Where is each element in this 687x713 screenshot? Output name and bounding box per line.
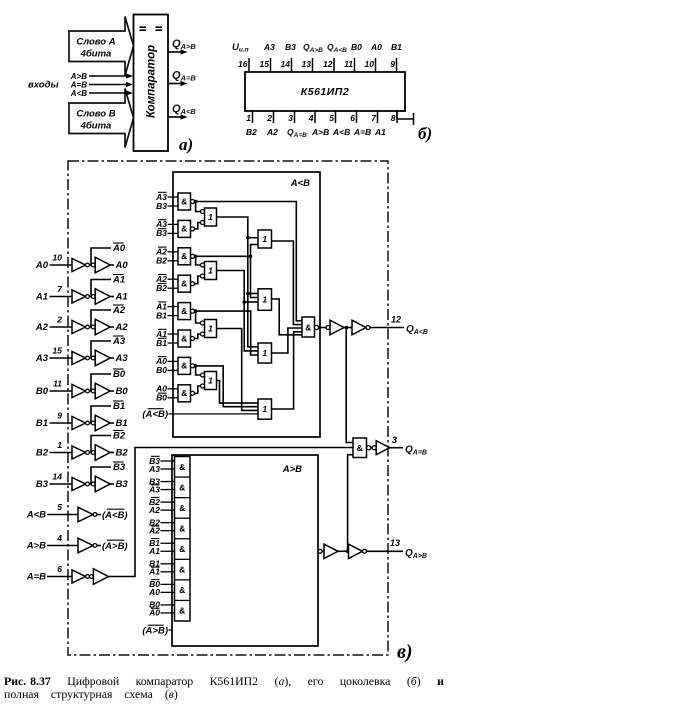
equality marks inside comparator (140, 27, 163, 30)
svg-text:13: 13 (302, 59, 312, 69)
label A1 inverted (112, 275, 125, 286)
svg-text:B2: B2 (116, 448, 129, 459)
input B0 pin 11 wire (36, 379, 72, 398)
svg-text:б): б) (418, 124, 432, 143)
inverter 1 for B0 (72, 385, 89, 398)
pin label B2 (bottom) (246, 127, 257, 137)
pin label QA>B (top) (303, 42, 323, 54)
svg-text:13: 13 (390, 538, 400, 548)
svg-text:полная структурная схема (в): полная структурная схема (в) (4, 687, 178, 701)
svg-text:&: & (179, 523, 185, 533)
node B2 inverted branch (90, 436, 112, 453)
wire NAND D1 out to OR D9 top input (195, 202, 201, 212)
svg-text:A1: A1 (115, 292, 128, 303)
svg-text:2: 2 (56, 315, 62, 325)
svg-text:&: & (179, 462, 185, 472)
input label A2bar of D3 (155, 247, 178, 257)
svg-text:12: 12 (323, 59, 333, 69)
node at NAND D3 output (194, 254, 198, 258)
pin 14 stub (top) (281, 58, 292, 72)
NAND gate D1 (A3bar.B3) (178, 193, 195, 210)
svg-text:B3: B3 (285, 42, 296, 52)
label A>B (block title) (282, 464, 302, 475)
svg-text:A=B: A=B (353, 127, 371, 137)
wire OR D16 out to final AND input 4 (272, 332, 303, 409)
svg-text:B0: B0 (351, 42, 362, 52)
svg-text:&: & (179, 585, 185, 595)
inverter 2 for A3 (91, 350, 114, 366)
svg-text:A3: A3 (115, 353, 129, 364)
svg-text:A0: A0 (35, 260, 49, 271)
input bus arrow Слово А 4бита (69, 17, 134, 76)
pin 16 stub (top) (238, 58, 249, 72)
svg-text:B0: B0 (156, 365, 167, 375)
svg-text:B3: B3 (36, 479, 49, 490)
pin label A=B (bottom) (353, 127, 371, 137)
label B0 buffered (116, 386, 129, 397)
svg-text:1: 1 (208, 212, 213, 222)
node B3 inverted branch (90, 467, 112, 484)
wire OR D11 out to OR D16 (217, 329, 259, 411)
inverted output node of A>B block (318, 549, 322, 553)
label в) (397, 641, 413, 663)
input A0 pin 10 wire (35, 253, 72, 272)
input label B2bar of D4 (156, 283, 178, 293)
wire buffer D20 to D21 with branch node (338, 550, 349, 552)
label A0 buffered (115, 260, 129, 271)
pin 1 stub (bottom) (246, 111, 252, 123)
svg-text:&: & (305, 322, 311, 332)
svg-text:(A<B): (A<B) (102, 510, 128, 521)
svg-text:B0: B0 (116, 386, 129, 397)
svg-text:A<B: A<B (70, 89, 87, 98)
wire NAND D3 out to OR D10 top input (195, 256, 201, 265)
wire NAND D7 out to OR D12 top input (195, 366, 201, 375)
input label A1 of A>B cell 5 (148, 546, 174, 556)
comparator block U1 (part a) (134, 15, 169, 152)
svg-text:Рис. 8.37 Цифровой компаратор: Рис. 8.37 Цифровой компаратор К561ИП2 (а… (4, 674, 444, 688)
wire output QA<B pin 12 (370, 315, 404, 328)
wire output QA=B pin 3 (390, 435, 403, 448)
input label A1bar of D5 (155, 301, 178, 311)
inverter 2 for A2 (91, 319, 114, 335)
svg-text:B1: B1 (113, 401, 125, 412)
input label B1 of A>B cell 6 (149, 559, 174, 569)
label B1 inverted (113, 401, 125, 412)
wire NAND D2 out to OR D9 bottom input (195, 223, 201, 229)
pin label B1 (top) (391, 42, 402, 52)
svg-text:A<B: A<B (332, 127, 350, 137)
svg-text:&: & (179, 482, 185, 492)
svg-text:&: & (181, 224, 187, 234)
svg-text:B1: B1 (156, 338, 167, 348)
input B2 pin 1 wire (36, 440, 72, 459)
svg-text:1: 1 (57, 440, 62, 450)
svg-text:A2: A2 (35, 322, 49, 333)
svg-text:(A<B): (A<B) (142, 409, 168, 420)
svg-text:A2: A2 (148, 505, 160, 515)
svg-text:A2: A2 (148, 525, 160, 535)
svg-text:3: 3 (288, 113, 293, 123)
wire NAND D8 out to OR D12 bottom input (195, 386, 201, 393)
svg-text:1: 1 (208, 376, 213, 386)
svg-text:B1: B1 (391, 42, 402, 52)
svg-text:B2: B2 (36, 448, 49, 459)
svg-text:B3: B3 (156, 201, 167, 211)
input label B0 of D7 (156, 365, 178, 375)
pin 6 stub (bottom) (350, 111, 356, 123)
buffer D21 (inverting output) (349, 544, 367, 559)
svg-text:&: & (181, 333, 187, 343)
input B1 pin 9 wire (36, 411, 72, 430)
svg-text:1: 1 (262, 234, 267, 244)
svg-text:&: & (181, 361, 187, 371)
OR gate D16 (258, 399, 272, 419)
IC body К561ИП2 (part б) (245, 72, 405, 111)
label B3 inverted (113, 462, 126, 473)
svg-text:12: 12 (391, 315, 401, 325)
cascade input A=B (part a) (70, 81, 133, 90)
input label B0bar of A>B cell 7 (149, 579, 174, 589)
wire OR D12 out to OR D16 (217, 381, 259, 404)
input label A3 of A>B cell 1 (148, 464, 174, 474)
label QA<B (406, 324, 428, 336)
svg-text:К561ИП2: К561ИП2 (301, 86, 349, 98)
svg-text:A>B: A>B (311, 127, 329, 137)
input B3 pin 14 wire (36, 472, 72, 491)
pin 4 stub (bottom) (308, 111, 315, 123)
NAND gate D8 (A0.B0bar) (178, 385, 195, 402)
svg-text:(A>B): (A>B) (102, 541, 128, 552)
input bus arrow Слово В 4бита (69, 89, 134, 148)
inverter 1 for A=B (72, 570, 89, 583)
svg-text:A2: A2 (266, 127, 278, 137)
inverter for A>B (78, 538, 101, 553)
pin label B3 (top) (285, 42, 296, 52)
label A2 buffered (115, 322, 129, 333)
pin 2 stub (bottom) (266, 111, 273, 123)
svg-text:3: 3 (392, 435, 397, 445)
pin 13 stub (top) (302, 58, 313, 72)
pin 15 stub (top) (260, 58, 271, 72)
svg-text:A3: A3 (263, 42, 275, 52)
svg-text:B3: B3 (156, 228, 167, 238)
figure caption line 1 (4, 674, 444, 688)
label A3 inverted (112, 336, 126, 347)
pin label A0 (top) (370, 42, 382, 52)
pin 3 stub (bottom) (288, 111, 294, 123)
svg-text:A2: A2 (115, 322, 129, 333)
svg-text:&: & (181, 279, 187, 289)
svg-text:B2: B2 (156, 283, 167, 293)
input label B3bar of A>B cell 1 (149, 456, 174, 466)
svg-text:B0: B0 (156, 393, 167, 403)
wire output QA>B pin 13 (367, 538, 404, 551)
node at NAND D5 output (194, 309, 198, 313)
OR gate D13 (258, 230, 272, 248)
pin 11 stub (top) (344, 58, 354, 72)
wire branch from QA>B node up to equality gate D22 (346, 455, 353, 553)
svg-text:A0: A0 (112, 243, 126, 254)
input label B0bar of D8 (156, 393, 178, 403)
pin 8 pointer and label б) (397, 111, 432, 143)
svg-text:15: 15 (53, 346, 63, 356)
label B2 inverted (113, 431, 126, 442)
svg-text:10: 10 (53, 253, 63, 263)
svg-text:а): а) (179, 135, 193, 154)
dash-dot boundary frame (part в) (68, 161, 388, 655)
svg-text:&: & (179, 606, 185, 616)
input label B3 of D1 (156, 201, 178, 211)
input label A2bar of D4 (155, 274, 178, 284)
svg-text:&: & (181, 196, 187, 206)
svg-text:B1: B1 (36, 418, 48, 429)
pin label QA<B (top) (327, 42, 347, 54)
svg-text:14: 14 (281, 59, 291, 69)
svg-text:входы: входы (28, 80, 59, 91)
pin label U и.п (232, 42, 249, 54)
node B0 inverted branch (90, 374, 112, 391)
svg-text:A0: A0 (148, 587, 160, 597)
pin 10 stub (top) (365, 58, 376, 72)
buffer D18 (inverting input) (326, 320, 344, 335)
svg-text:4бита: 4бита (80, 121, 112, 132)
pin label A2 (bottom) (266, 127, 278, 137)
wire NAND D5 out to OR D15 (196, 311, 258, 355)
input A<B pin 5 wire (26, 502, 78, 521)
wire OR D15 out to final AND input 3 (272, 328, 303, 353)
node A2 inverted branch (90, 310, 112, 327)
svg-text:16: 16 (238, 59, 248, 69)
input label A3bar of D2 (155, 219, 178, 229)
svg-text:A>B: A>B (26, 541, 46, 552)
label A<B (block title) (290, 178, 310, 189)
input label B0 of A>B cell 8 (149, 600, 174, 610)
node at NAND D7 output (194, 364, 198, 368)
svg-text:A3: A3 (148, 484, 160, 494)
wire trunk OR D9 out to OR D13/D14/D15 (217, 217, 259, 347)
cascade input A<B (part a) (70, 89, 133, 98)
pin 7 stub (bottom) (371, 111, 377, 123)
pin label A3 (top) (263, 42, 275, 52)
svg-text:B1: B1 (156, 310, 167, 320)
svg-text:6: 6 (57, 564, 62, 574)
OR gate D10 (pair 3/4) (201, 262, 217, 280)
label A2 inverted (112, 305, 126, 316)
input label A2 of A>B cell 3 (148, 505, 174, 515)
node A3 inverted branch (90, 341, 112, 358)
OR gate D11 (pair 5/6) (201, 320, 217, 338)
wire NAND D6 out to OR D11 bottom input (195, 334, 201, 339)
node at NAND D1 output (194, 200, 198, 204)
label QA>B (405, 548, 427, 560)
svg-text:&: & (357, 443, 363, 453)
svg-text:A0: A0 (370, 42, 382, 52)
wire D17 out to buffer (319, 327, 326, 329)
svg-text:&: & (181, 251, 187, 261)
label а) (179, 135, 193, 154)
wire trunk OR D10 out to OR D14/D15 (217, 271, 259, 351)
svg-text:4: 4 (56, 533, 62, 543)
wire NAND D7 out to OR D16 (196, 366, 258, 407)
svg-text:A1: A1 (148, 567, 160, 577)
svg-text:B0: B0 (36, 386, 49, 397)
NAND gate D3 (A2bar.B2) (178, 248, 195, 265)
label A1 buffered (115, 292, 128, 303)
svg-text:Слово В: Слово В (76, 109, 115, 120)
label B0 inverted (113, 369, 126, 380)
wire NAND D1 out to final AND input 1 (196, 202, 302, 321)
label B3 buffered (116, 479, 129, 490)
svg-text:B3: B3 (116, 479, 129, 490)
svg-text:1: 1 (246, 113, 251, 123)
svg-text:8: 8 (391, 113, 396, 123)
block A>B enclosure (172, 455, 318, 646)
svg-text:15: 15 (260, 59, 270, 69)
svg-text:B0: B0 (113, 369, 126, 380)
input A=B pin 6 wire (26, 564, 72, 583)
svg-text:A1: A1 (112, 275, 125, 286)
input label B3 of A>B cell 2 (149, 476, 174, 486)
wire OR D13 out to final AND input 2 (272, 241, 303, 325)
pin label A1 (bottom) (374, 127, 386, 137)
wire buffer D18 to D19 with branch node (344, 326, 352, 330)
input (A>B)bar into A>B block (142, 625, 172, 636)
figure caption line 2 (4, 687, 178, 701)
svg-text:2: 2 (266, 113, 272, 123)
block A<B enclosure (173, 172, 320, 437)
svg-text:A1: A1 (35, 292, 48, 303)
NAND gate D2 (A3bar.B3bar) (178, 220, 195, 237)
svg-text:Компаратор: Компаратор (146, 45, 158, 118)
pin label A<B (bottom) (332, 127, 350, 137)
svg-text:10: 10 (365, 59, 375, 69)
label B1 buffered (116, 418, 128, 429)
input label B1bar of A>B cell 5 (149, 538, 174, 548)
pin 8 stub (bottom) (391, 111, 397, 123)
svg-text:в): в) (397, 641, 413, 663)
input A>B pin 4 wire (26, 533, 78, 552)
inverter 2 for A1 (91, 289, 114, 305)
svg-text:(A>B): (A>B) (142, 626, 168, 637)
input label B1bar of D6 (156, 338, 178, 348)
inverter 1 for B1 (72, 417, 89, 430)
input label B2bar of A>B cell 3 (149, 497, 174, 507)
input label B3bar of D2 (156, 228, 178, 238)
svg-text:9: 9 (57, 411, 62, 421)
svg-text:A<B: A<B (290, 178, 310, 189)
inverter 2 for B3 (91, 476, 114, 492)
inverter 1 for A0 (72, 259, 89, 272)
label A>B inverted (102, 540, 128, 552)
label QA=B (405, 445, 427, 457)
inverter 1 for A2 (72, 321, 89, 334)
svg-text:4бита: 4бита (80, 49, 112, 60)
wire A=B to equality gate (108, 448, 353, 577)
svg-text:6: 6 (350, 113, 355, 123)
input A2 pin 2 wire (35, 315, 72, 334)
wire D22 out to buffer D23 (371, 447, 372, 449)
pin 9 stub (top) (390, 58, 396, 72)
pin label B0 (top) (351, 42, 362, 52)
NAND gate D6 (A1bar.B1bar) (178, 330, 195, 347)
svg-text:B1: B1 (116, 418, 128, 429)
svg-text:1: 1 (262, 295, 267, 305)
inverter 2 for B0 (91, 383, 114, 399)
svg-text:1: 1 (262, 404, 267, 414)
inverter 2 for B1 (91, 415, 114, 431)
node A0 inverted branch (90, 248, 112, 265)
input label A1bar of D6 (155, 329, 178, 339)
input label A2bar of A>B cell 4 (148, 525, 174, 535)
wire NAND D5 out to OR D11 top input (195, 311, 201, 323)
svg-text:9: 9 (390, 59, 395, 69)
svg-text:1: 1 (262, 348, 267, 358)
svg-text:&: & (181, 388, 187, 398)
svg-text:11: 11 (344, 59, 353, 69)
svg-text:B2: B2 (156, 256, 167, 266)
wire NAND D3 out to OR D13 and OR D14 (196, 245, 258, 298)
svg-text:&: & (179, 565, 185, 575)
wire NAND D4 out to OR D10 bottom input (195, 276, 201, 284)
input label A0 of D8 (155, 384, 178, 394)
svg-text:A1: A1 (374, 127, 386, 137)
pin 12 stub (top) (323, 58, 334, 72)
input label A0bar of A>B cell 8 (148, 608, 174, 618)
input label A3bar of A>B cell 2 (148, 484, 174, 494)
inverter 2 for B2 (91, 445, 114, 461)
svg-text:4: 4 (308, 113, 314, 123)
OR gate D15 (258, 343, 272, 363)
input A1 pin 7 wire (35, 284, 72, 303)
input label B1 of D5 (156, 310, 178, 320)
label A3 buffered (115, 353, 129, 364)
svg-text:A1: A1 (148, 546, 160, 556)
svg-text:B3: B3 (113, 462, 126, 473)
input label B2 of A>B cell 4 (149, 517, 174, 527)
input A3 pin 15 wire (35, 346, 72, 365)
svg-text:5: 5 (329, 113, 334, 123)
OR gate D14 (258, 289, 272, 311)
svg-text:A<B: A<B (26, 510, 46, 521)
svg-text:&: & (181, 306, 187, 316)
pin label A>B (bottom) (311, 127, 329, 137)
label A0 inverted (112, 243, 126, 254)
svg-text:A0: A0 (148, 608, 160, 618)
inverter for A<B (78, 507, 101, 522)
NAND gate D4 (A2bar.B2bar) (178, 275, 195, 292)
svg-text:Слово А: Слово А (76, 37, 115, 48)
svg-text:B2: B2 (246, 127, 257, 137)
svg-text:A2: A2 (112, 305, 126, 316)
svg-text:A=B: A=B (26, 572, 46, 583)
label B2 buffered (116, 448, 129, 459)
wire branch from QA<B node down to equality gate D22 (346, 328, 353, 443)
input label A3bar of D1 (155, 192, 178, 202)
svg-text:A3: A3 (148, 464, 160, 474)
svg-text:B2: B2 (113, 431, 126, 442)
svg-text:14: 14 (53, 472, 63, 482)
output QA>B (part a) (168, 38, 196, 55)
input label A0bar of D7 (155, 356, 178, 366)
inverter 2 for A0 (91, 257, 114, 273)
svg-text:1: 1 (208, 266, 213, 276)
AND gate D22 for QA=B (353, 438, 371, 458)
inverter 1 for B2 (72, 446, 89, 459)
svg-text:1: 1 (208, 324, 213, 334)
pin label QA=B (bottom) (287, 127, 307, 139)
label входы (28, 80, 59, 91)
